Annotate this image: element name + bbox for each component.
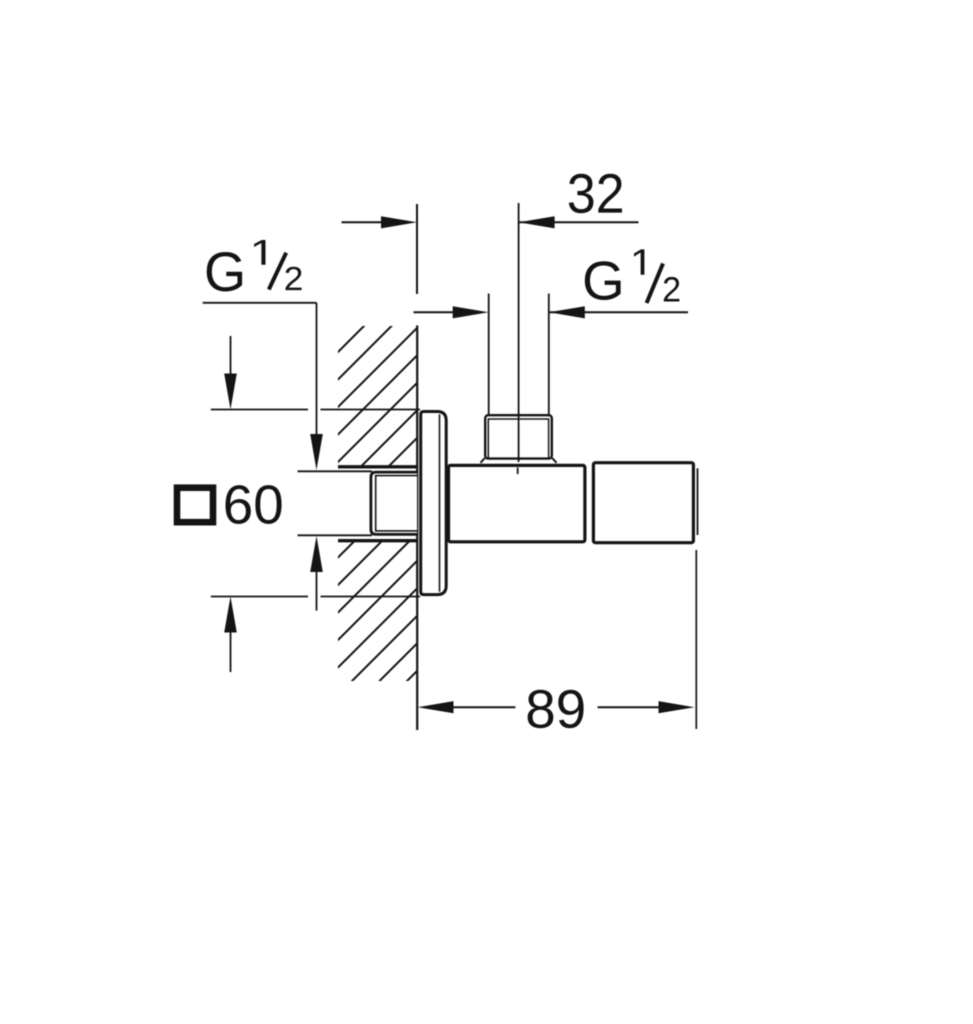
leader left G1/2 vertical [316, 303, 318, 437]
wall hole bottom edge [338, 539, 417, 542]
pipe centerline [518, 203, 520, 462]
thread flare right [552, 458, 556, 463]
label G12 right: 2 [664, 277, 680, 302]
label G12 left: 2 [285, 267, 301, 290]
label G1/2 right: slash [647, 264, 663, 304]
dim 32: left arrowhead at centerline [519, 216, 555, 228]
escutcheon flange [421, 412, 447, 595]
valve body [449, 465, 585, 541]
dim 32: left dim line [342, 221, 389, 223]
dim G1/2 top: left dim line [414, 311, 457, 313]
label G12 right: G [585, 261, 621, 300]
dim 60: lower vertical line [230, 630, 232, 672]
top pipe right edge [548, 294, 550, 416]
thread flare left [481, 458, 485, 463]
wall hatch upper block [338, 326, 417, 467]
supply pipe bottom edge [298, 534, 373, 536]
dim 60: up arrowhead at flange bottom [224, 597, 237, 633]
dim 60: top extension line seg1 [211, 409, 308, 411]
top pipe left edge [488, 294, 490, 416]
dim 60: bottom extension line seg1 [211, 596, 308, 598]
label G1/2 left: slash [269, 253, 286, 290]
dim 89: left arrowhead at wall face [418, 701, 454, 713]
wall face line [416, 325, 418, 730]
flange face line [439, 414, 441, 591]
text 60 [225, 485, 281, 524]
supply pipe top edge [298, 470, 373, 472]
dim G1/2 top: right dim line [549, 311, 688, 313]
handle rim line [697, 468, 699, 535]
pipe OD dim: up arrowhead at pipe bottom [310, 536, 323, 572]
dim 89: right extension line [695, 550, 697, 729]
union nut outer [371, 472, 417, 534]
handle cap [593, 463, 693, 543]
wall hole top edge [338, 465, 417, 468]
dim 32: left extension line [416, 204, 418, 294]
dim 89: dim line right segment [598, 706, 662, 708]
pipe OD dim: lower vertical line [316, 570, 318, 611]
body centerline dash [517, 468, 519, 475]
square symbol [177, 488, 213, 523]
leader left G1/2 horizontal [203, 302, 317, 304]
label G12 right: 1 [634, 249, 644, 274]
text 32 [569, 174, 622, 213]
dim 89: right arrowhead at handle edge [659, 701, 695, 713]
label G12 left: 1 [254, 240, 265, 265]
text 89 [528, 690, 584, 729]
dim 60: down arrowhead at flange top [224, 374, 237, 410]
dim 32: right arrowhead into wall line [381, 216, 417, 228]
dim G1/2 top: left arrowhead at pipe right [549, 306, 585, 318]
label G12 left: G [207, 252, 242, 291]
dim 60: top extension line seg2 [321, 409, 421, 411]
union nut inner [376, 476, 417, 531]
thread nut outer [485, 415, 552, 458]
leader arrowhead down at pipe top [310, 434, 323, 470]
dim 89: dim line left segment [450, 706, 515, 708]
dim 32: right dim line [519, 221, 639, 223]
wall hatch lower block [338, 541, 417, 681]
thread nut inner [488, 419, 548, 459]
dim G1/2 top: right arrowhead at pipe left [453, 306, 489, 318]
dim 60: bottom extension line seg2 [321, 596, 421, 598]
dim 60: upper vertical line [230, 336, 232, 376]
